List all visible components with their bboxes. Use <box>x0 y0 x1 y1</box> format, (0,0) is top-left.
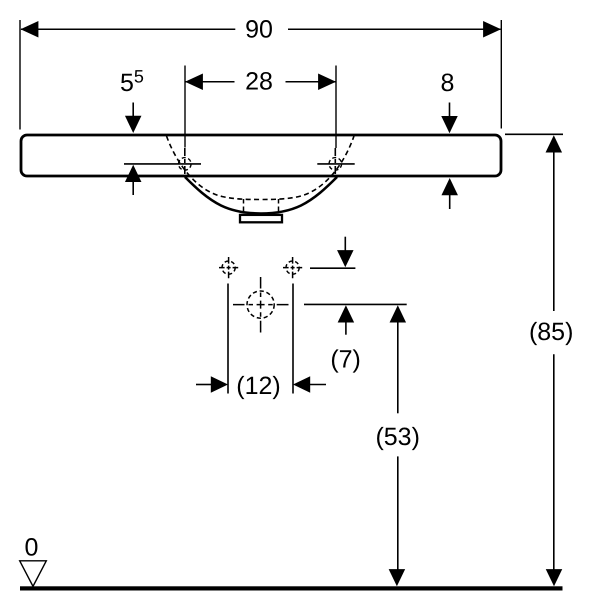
dim 28 right arrowhead <box>318 73 336 90</box>
svg-text:28: 28 <box>245 67 273 95</box>
svg-text:8: 8 <box>441 69 455 97</box>
tap hole front view right: horizontal center line <box>283 267 302 269</box>
dim 7 upper arrow shaft <box>344 237 346 251</box>
drain dashed side left <box>243 199 245 215</box>
svg-text:(53): (53) <box>375 423 419 451</box>
basin outer bowl solid curve <box>185 177 337 214</box>
svg-text:90: 90 <box>245 16 273 44</box>
drain outlet rectangle <box>240 215 282 222</box>
dim 8 upper arrowhead pointing down <box>441 116 458 133</box>
dim 5.5 lower arrow shaft <box>132 182 134 196</box>
dim 53 lower shaft <box>397 456 399 570</box>
dim 90 line left segment <box>21 28 235 30</box>
dim 85 upper shaft <box>553 152 555 311</box>
dim 85 upper arrowhead pointing up <box>546 135 563 152</box>
dim 85 lower shaft <box>553 354 555 570</box>
faucet hole right section: vertical dashed line <box>334 148 336 176</box>
faucet hole right section: dashed circle <box>329 158 342 171</box>
extension line right hole down to dim 12 <box>292 284 294 394</box>
dim 12 right arrowhead pointing left <box>293 376 310 393</box>
svg-text:0: 0 <box>25 534 39 562</box>
tap hole front view left: dashed circle <box>222 261 235 274</box>
svg-text:(7): (7) <box>330 346 361 374</box>
basin inner bowl dashed curve <box>167 136 355 200</box>
overflow hole front view: dashed circle <box>247 291 274 318</box>
dim 7 upper reference line at tap hole level <box>310 267 355 269</box>
overflow hole front view: horizontal center line <box>233 304 289 306</box>
dim 12 left arrow shaft <box>196 384 212 386</box>
dim 28 line right segment <box>286 81 337 83</box>
dim 85 lower arrowhead pointing down <box>546 569 563 586</box>
drain dashed side right <box>278 199 280 215</box>
datum level triangle <box>20 561 47 587</box>
svg-text:(85): (85) <box>529 318 573 346</box>
dim 12 left arrowhead pointing right <box>211 376 228 393</box>
floor line <box>20 586 563 590</box>
dim 5.5 upper arrowhead pointing down <box>125 116 142 133</box>
faucet hole left section: vertical dashed line <box>184 148 186 176</box>
dim 90 left extension line <box>19 20 21 130</box>
dim 90 right arrowhead <box>483 21 501 38</box>
dim 85 reference line at slab top level <box>505 133 563 135</box>
dim 28 left arrowhead <box>185 73 203 90</box>
faucet hole right section: horizontal center line <box>317 163 354 165</box>
dim 28 left extension line <box>184 66 186 148</box>
washbasin slab outline <box>21 135 501 176</box>
dim 53 lower arrowhead pointing down <box>389 569 406 586</box>
extension line left hole down to dim 12 <box>227 284 229 394</box>
tap hole front view right: vertical center line <box>292 257 294 278</box>
dim 5.5 lower arrowhead pointing up <box>125 165 142 182</box>
tap hole front view right: dashed circle <box>286 261 299 274</box>
dim 90 left arrowhead <box>21 21 39 38</box>
faucet hole left section: dashed circle <box>179 158 192 171</box>
faucet hole left section: horizontal center line <box>124 163 201 165</box>
dim 90 right extension line <box>500 20 502 129</box>
dim 28 right extension line <box>335 66 337 149</box>
dim 7 upper arrowhead pointing down <box>337 250 354 267</box>
tap hole front view left: vertical center line <box>228 257 230 278</box>
dim 8 lower arrow shaft <box>449 195 451 209</box>
dim 7 lower arrow shaft <box>345 322 347 335</box>
dim 5.5 upper arrow shaft <box>132 103 134 118</box>
dim 28 line left segment <box>185 81 235 83</box>
dim 8 lower arrowhead pointing up <box>441 178 458 195</box>
dim 7 lower arrowhead pointing up <box>338 305 355 322</box>
tap hole front view left: horizontal center line <box>219 267 238 269</box>
dim 53 upper shaft <box>397 322 399 413</box>
reference line at overflow hole level <box>304 303 407 305</box>
svg-text:(12): (12) <box>236 372 280 400</box>
dim 12 right arrow shaft <box>310 384 326 386</box>
dim 53 upper arrowhead pointing up <box>390 305 407 322</box>
overflow hole front view: vertical center line <box>260 277 262 333</box>
dim 90 line right segment <box>288 28 501 30</box>
dim 8 upper arrow shaft <box>449 103 451 118</box>
